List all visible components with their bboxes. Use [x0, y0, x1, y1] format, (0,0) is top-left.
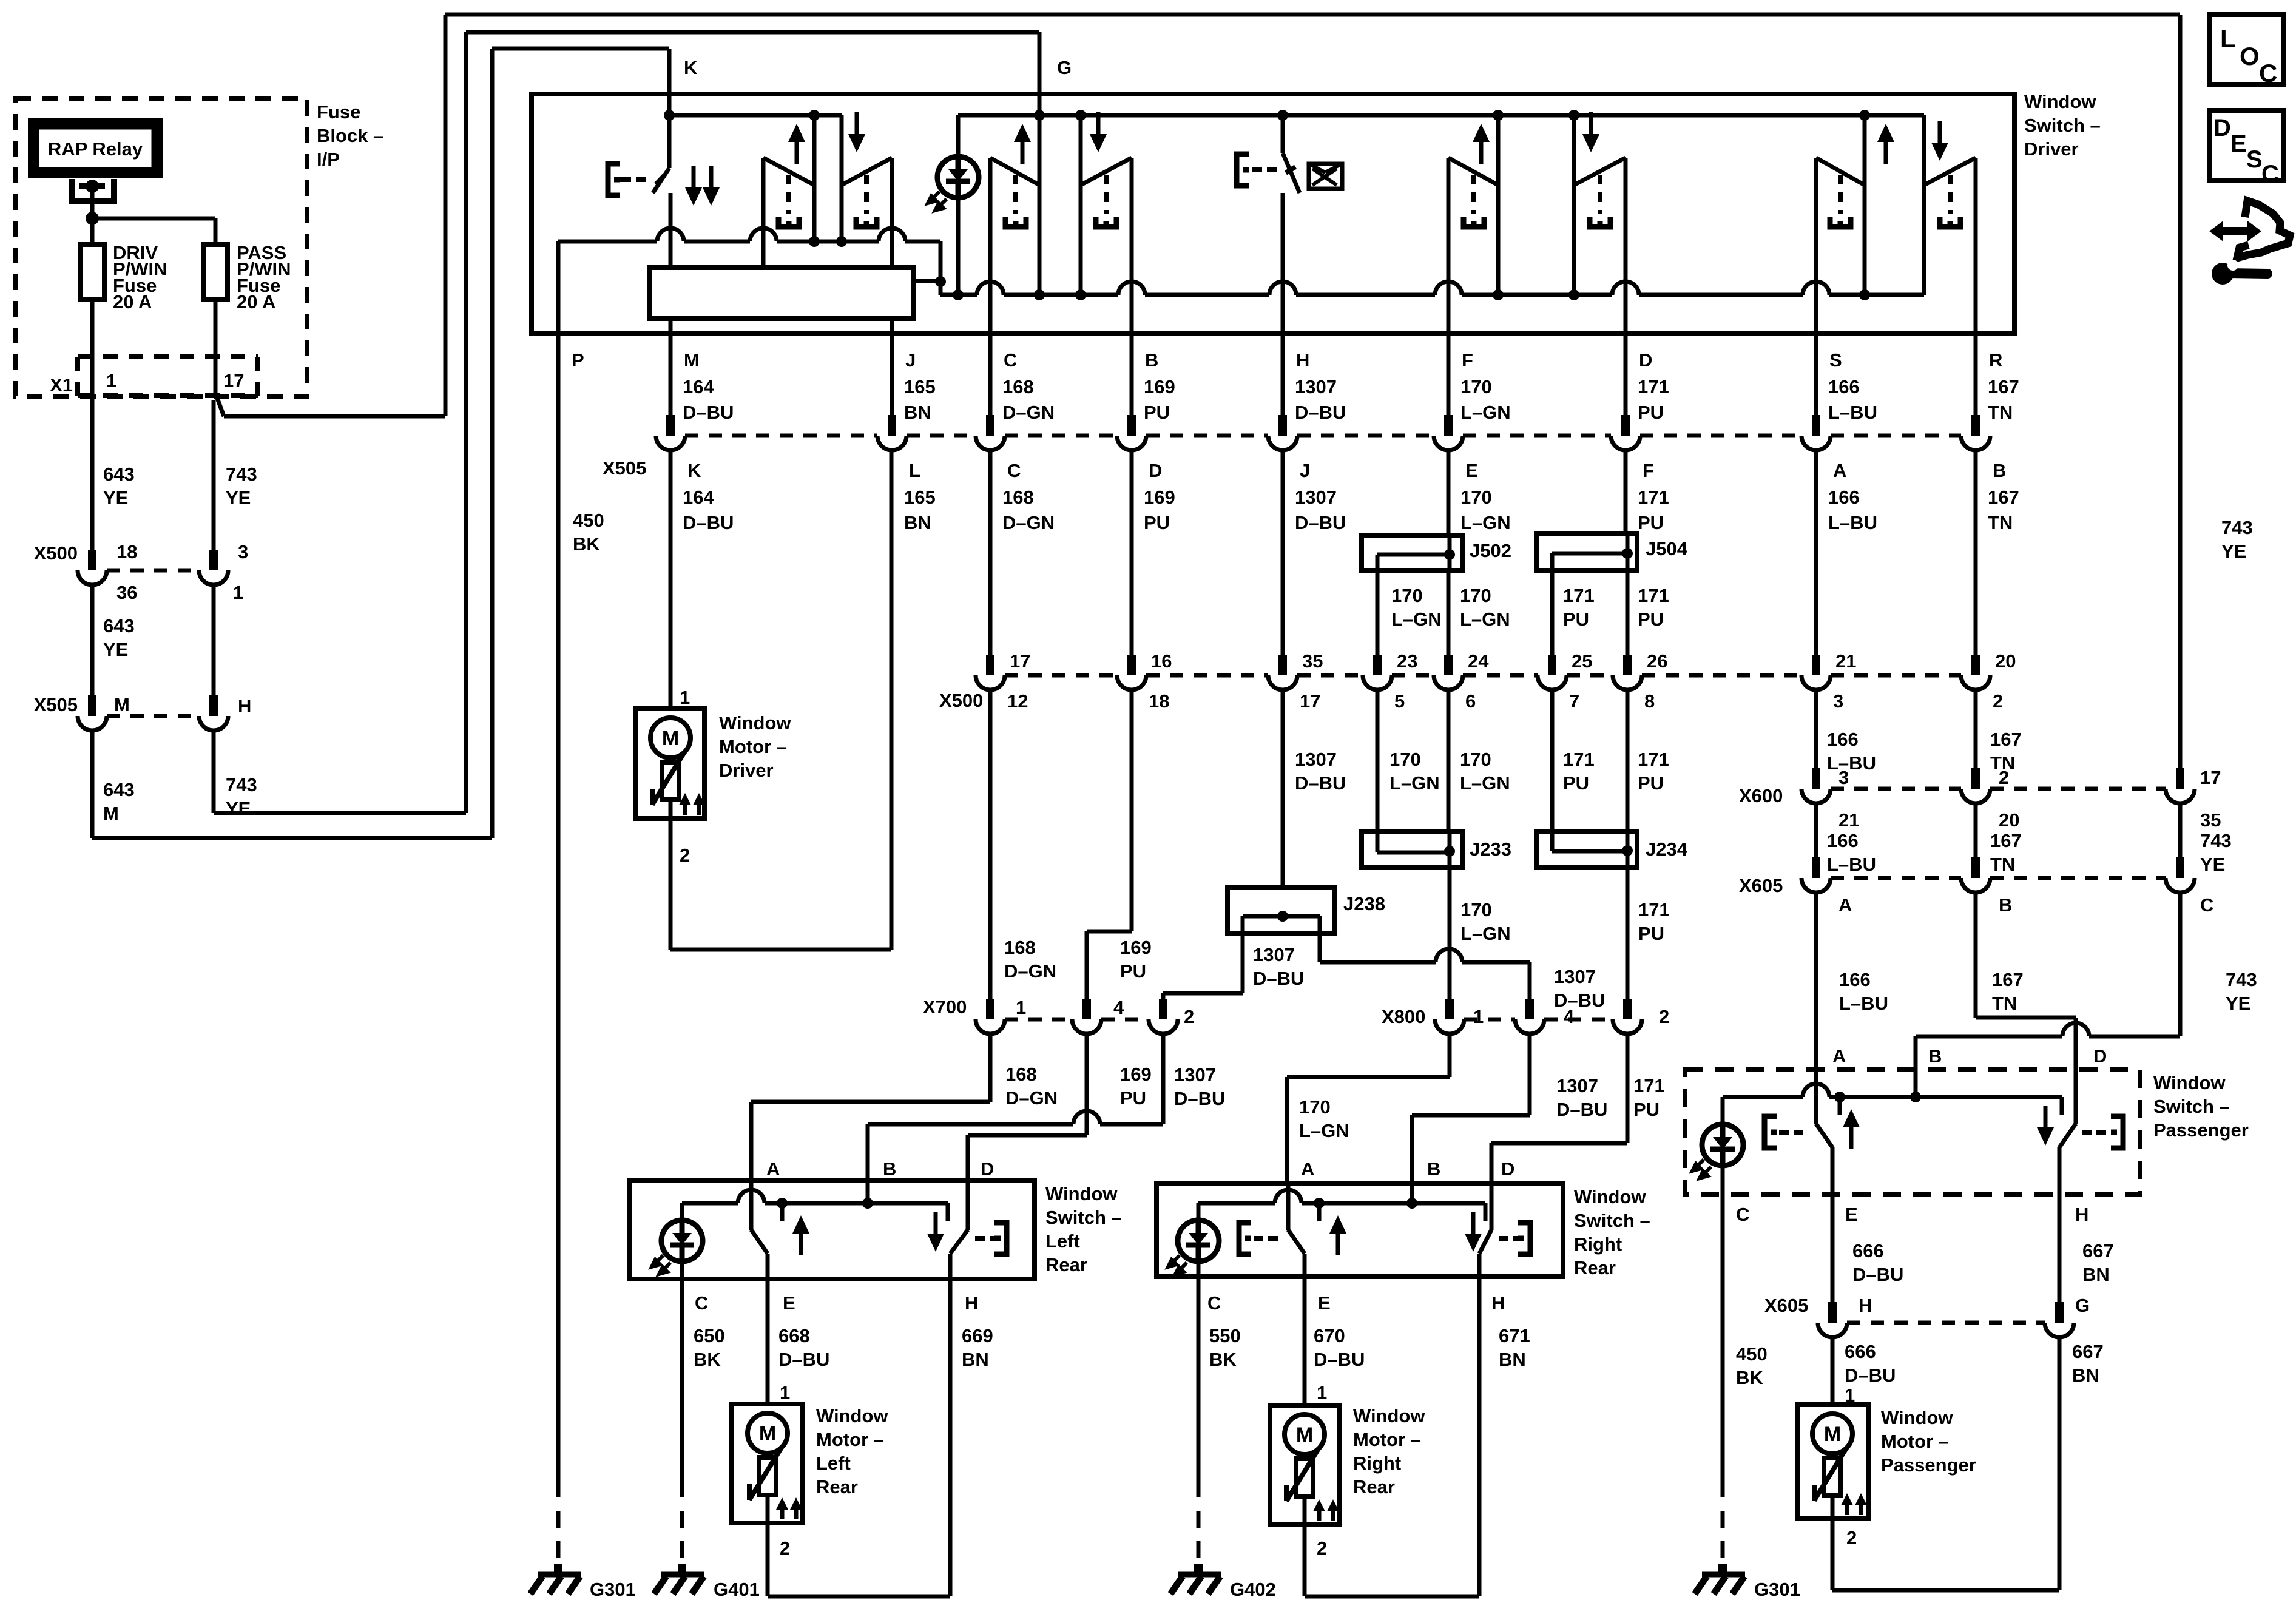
svg-text:D–BU: D–BU	[1556, 1099, 1607, 1120]
svg-text:1307: 1307	[1556, 1075, 1598, 1096]
svg-text:C: C	[1736, 1204, 1749, 1225]
svg-text:C: C	[1004, 349, 1017, 371]
svg-text:D: D	[1149, 460, 1162, 481]
svg-text:Switch –: Switch –	[1574, 1210, 1650, 1231]
ground G301 left	[554, 1564, 562, 1573]
svg-text:25: 25	[1572, 650, 1592, 672]
svg-text:K: K	[687, 460, 701, 481]
switch K lockout	[667, 115, 672, 168]
svg-text:X605: X605	[1764, 1295, 1808, 1316]
wire 171b below J504	[1626, 570, 1630, 655]
node LED dot	[953, 289, 964, 300]
connector X505 at 2387	[1444, 415, 1453, 436]
pass arrow down	[2044, 1106, 2048, 1133]
svg-text:1307: 1307	[1295, 376, 1337, 397]
svg-text:D–BU: D–BU	[1554, 990, 1605, 1011]
svg-text:TN: TN	[1990, 854, 2015, 875]
svg-text:550: 550	[1209, 1325, 1241, 1346]
svg-text:20 A: 20 A	[113, 291, 152, 312]
svg-text:A: A	[1832, 1045, 1846, 1067]
svg-text:BN: BN	[1499, 1349, 1526, 1370]
wire X505 dash	[1005, 434, 1117, 438]
svg-text:6: 6	[1465, 690, 1476, 712]
svg-text:P: P	[572, 349, 584, 371]
svg-text:K: K	[684, 57, 698, 78]
wire 1307 to J238	[1281, 690, 1285, 888]
svg-text:F: F	[1643, 460, 1654, 481]
left rear node B input	[862, 1198, 873, 1209]
arrow down cell1	[855, 112, 859, 140]
connector X505 at 1470	[888, 415, 896, 436]
svg-text:169: 169	[1144, 487, 1175, 508]
left rear arrow down	[934, 1212, 938, 1240]
right rear node up stub	[1314, 1198, 1325, 1209]
svg-text:Left: Left	[1045, 1230, 1080, 1252]
svg-text:169: 169	[1120, 1064, 1152, 1085]
svg-text:J: J	[905, 349, 916, 371]
svg-text:450: 450	[573, 510, 604, 531]
switch quad cell4-up	[1447, 158, 1451, 337]
svg-text:B: B	[1928, 1045, 1942, 1067]
wire 166 to pass box	[1814, 893, 1818, 1070]
wire into X505 2114	[1281, 334, 1285, 415]
svg-text:PU: PU	[1638, 923, 1664, 944]
pass node down stub	[2060, 1097, 2064, 1115]
svg-text:3: 3	[238, 541, 248, 562]
wire PASS fuse down	[214, 300, 218, 393]
svg-text:PU: PU	[1120, 1087, 1146, 1109]
svg-text:164: 164	[683, 487, 714, 508]
left rear arrow up	[799, 1229, 803, 1255]
wire cell5 mid-left	[1863, 115, 1867, 295]
left rear switch down contact	[966, 1181, 970, 1230]
left rear window switch box	[630, 1181, 1035, 1279]
arrow up cell2	[1021, 137, 1025, 164]
svg-text:670: 670	[1314, 1325, 1345, 1346]
svg-text:167: 167	[1988, 487, 2019, 508]
svg-text:PU: PU	[1563, 772, 1589, 794]
svg-text:170: 170	[1391, 585, 1423, 606]
svg-text:D–BU: D–BU	[683, 402, 734, 423]
svg-text:21: 21	[1838, 809, 1859, 831]
switch quad cell5-up	[1814, 158, 1818, 337]
svg-text:36: 36	[116, 582, 137, 603]
wire 170a below J502	[1376, 570, 1380, 655]
connector X500 at 1632	[986, 655, 994, 675]
svg-text:H: H	[2075, 1204, 2088, 1225]
svg-text:C: C	[1207, 1292, 1221, 1314]
wire 743 YE mid	[212, 585, 216, 697]
svg-text:21: 21	[1835, 650, 1856, 672]
svg-text:666: 666	[1845, 1341, 1876, 1362]
svg-text:BK: BK	[1209, 1349, 1237, 1370]
svg-text:668: 668	[778, 1325, 810, 1346]
connector X505 at 2679	[1621, 415, 1630, 436]
svg-text:M: M	[1296, 1423, 1313, 1447]
wire K into box	[667, 49, 672, 115]
svg-text:2: 2	[1999, 767, 2009, 788]
svg-text:167: 167	[1990, 729, 2022, 750]
svg-text:B: B	[883, 1158, 896, 1180]
switch quad cell5-down	[1974, 158, 1978, 337]
wire 170a to J233	[1376, 690, 1380, 832]
svg-text:Motor –: Motor –	[816, 1429, 884, 1450]
svg-text:7: 7	[1569, 690, 1579, 712]
wire X500 dash	[1642, 673, 1801, 678]
svg-text:Rear: Rear	[1045, 1254, 1087, 1275]
wire H below lockout	[1281, 193, 1285, 337]
svg-text:2: 2	[1184, 1006, 1194, 1027]
wire common P segment	[558, 240, 657, 244]
svg-text:171: 171	[1563, 585, 1595, 606]
switch H window lockout	[1281, 115, 1285, 153]
svg-text:1307: 1307	[1295, 749, 1337, 770]
svg-text:YE: YE	[103, 639, 128, 660]
wire cell2 mid-left G	[1038, 115, 1042, 295]
splice J502	[1362, 536, 1462, 570]
svg-text:643: 643	[103, 464, 135, 485]
svg-text:D–BU: D–BU	[1845, 1365, 1896, 1386]
svg-text:Right: Right	[1574, 1234, 1622, 1255]
svg-text:L–GN: L–GN	[1299, 1120, 1349, 1141]
connector X500 at 3256	[1971, 655, 1980, 675]
right rear switch down contact	[1490, 1184, 1494, 1230]
svg-text:169: 169	[1144, 376, 1175, 397]
relay contact symbol	[72, 179, 114, 201]
svg-text:H: H	[1491, 1292, 1505, 1314]
wire into X505 1470	[890, 334, 894, 415]
svg-text:1307: 1307	[1554, 966, 1596, 987]
wire 171 below J234	[1626, 868, 1630, 999]
wire pass motor return 667	[1831, 1519, 1835, 1590]
svg-text:G: G	[1057, 57, 1072, 78]
svg-text:2: 2	[1659, 1006, 1669, 1027]
svg-text:I/P: I/P	[317, 149, 340, 170]
svg-text:E: E	[2230, 130, 2247, 157]
wire X500 dash	[1297, 673, 1363, 678]
svg-text:Window: Window	[1353, 1405, 1425, 1426]
svg-text:D: D	[981, 1158, 994, 1180]
RAP Relay	[30, 121, 160, 176]
ground G402	[1194, 1564, 1203, 1573]
pass linkage up	[1764, 1116, 1777, 1148]
svg-text:L–GN: L–GN	[1391, 609, 1442, 630]
wire into X505 2387	[1447, 334, 1451, 415]
splice J504	[1536, 533, 1637, 570]
wire 166 X600-X605	[1814, 803, 1818, 857]
arrow up cell1	[795, 137, 799, 164]
connector X500 at 2114	[1278, 655, 1287, 675]
svg-text:M: M	[662, 727, 679, 750]
right rear node down stub	[1484, 1203, 1488, 1221]
window lock icon	[1309, 164, 1342, 189]
svg-text:H: H	[238, 695, 251, 717]
switch quad cell4-down	[1624, 158, 1628, 337]
right rear wire switch internal feed	[1198, 1201, 1275, 1206]
arrow wrench icon	[2220, 227, 2250, 235]
right rear arrow up	[1336, 1229, 1340, 1255]
svg-text:Passenger: Passenger	[1881, 1454, 1976, 1476]
right rear switch up contact	[1286, 1184, 1291, 1230]
wire 171a below J504	[1550, 570, 1555, 655]
svg-text:X600: X600	[1739, 785, 1783, 806]
svg-text:YE: YE	[2200, 854, 2225, 875]
wire 167 X600-X605	[1974, 803, 1978, 857]
svg-text:L–GN: L–GN	[1460, 512, 1511, 533]
svg-text:24: 24	[1468, 650, 1489, 672]
connector X505 at 2993	[1812, 415, 1820, 436]
wire 171a to J234	[1550, 690, 1555, 832]
svg-text:Window: Window	[1045, 1183, 1118, 1204]
wire X505 dash	[1463, 434, 1611, 438]
svg-text:743: 743	[2221, 517, 2253, 538]
connector X500 at 2558	[1548, 655, 1556, 675]
svg-text:168: 168	[1002, 487, 1034, 508]
svg-text:167: 167	[1990, 830, 2022, 851]
svg-text:17: 17	[2200, 767, 2221, 788]
right rear window switch box	[1156, 1184, 1563, 1277]
svg-text:A: A	[1838, 894, 1852, 916]
svg-text:171: 171	[1633, 1075, 1665, 1096]
svg-text:D–BU: D–BU	[1295, 402, 1346, 423]
pass node B	[1910, 1092, 1921, 1102]
wire LR motor return 669	[766, 1523, 770, 1596]
pass switch up	[1814, 1070, 1818, 1124]
svg-text:2: 2	[1317, 1538, 1327, 1559]
connector X505 at 2114	[1278, 415, 1287, 436]
wire into X505 3256	[1974, 334, 1978, 415]
wire into X505 2679	[1624, 334, 1628, 415]
svg-text:X505: X505	[603, 457, 646, 479]
wire into X505 1105	[669, 334, 673, 415]
fuse block I/P dashed outline	[15, 98, 307, 396]
wire A rightrear	[1448, 1034, 1452, 1077]
svg-text:H: H	[1296, 349, 1309, 371]
svg-text:Window: Window	[816, 1405, 888, 1426]
wire 171b to J234	[1626, 690, 1630, 832]
svg-text:1: 1	[1473, 1006, 1484, 1027]
svg-text:BN: BN	[2072, 1365, 2099, 1386]
arrow down cell4	[1589, 112, 1593, 140]
svg-text:YE: YE	[2226, 993, 2250, 1014]
wire 643 M loop to K line	[90, 731, 95, 838]
wire P down	[556, 241, 561, 1480]
svg-text:S: S	[2246, 146, 2263, 173]
svg-text:168: 168	[1005, 1064, 1037, 1085]
svg-text:26: 26	[1647, 650, 1667, 672]
svg-text:2: 2	[1846, 1527, 1857, 1548]
svg-text:C: C	[2261, 161, 2279, 187]
svg-text:Window: Window	[2024, 91, 2096, 112]
svg-text:1: 1	[106, 370, 116, 391]
svg-text:170: 170	[1460, 585, 1491, 606]
svg-text:G301: G301	[1754, 1579, 1800, 1600]
svg-text:PU: PU	[1638, 512, 1664, 533]
wire M through bus	[669, 319, 673, 337]
svg-text:D: D	[2213, 115, 2231, 141]
svg-text:E: E	[1465, 460, 1478, 481]
svg-text:A: A	[1833, 460, 1846, 481]
wire X505 dash	[685, 434, 877, 438]
svg-text:TN: TN	[1988, 402, 2013, 423]
wire cell4 mid-left	[1496, 115, 1501, 295]
connector X500 at 2993	[1812, 655, 1820, 675]
wire D rightrear	[1626, 1034, 1630, 1143]
svg-text:G301: G301	[590, 1579, 636, 1600]
wire 667 to X605G	[2058, 1195, 2062, 1302]
svg-text:L–GN: L–GN	[1460, 923, 1511, 944]
svg-text:X500: X500	[939, 690, 983, 711]
svg-text:X700: X700	[923, 996, 967, 1018]
svg-text:PU: PU	[1638, 772, 1664, 794]
svg-text:D–BU: D–BU	[1295, 512, 1346, 533]
svg-text:2: 2	[680, 845, 690, 866]
svg-text:H: H	[1859, 1295, 1872, 1316]
svg-text:J233: J233	[1470, 839, 1511, 860]
svg-text:BN: BN	[904, 402, 931, 423]
svg-text:20 A: 20 A	[237, 291, 275, 312]
svg-text:743: 743	[226, 464, 257, 485]
LOC box	[2209, 15, 2284, 84]
svg-text:YE: YE	[226, 487, 251, 508]
wire G into box	[1038, 32, 1042, 115]
wire B leftrear	[1161, 1034, 1166, 1124]
svg-text:D–BU: D–BU	[1295, 772, 1346, 794]
svg-text:17: 17	[1300, 690, 1320, 712]
wire X505 dash	[907, 434, 976, 438]
svg-text:171: 171	[1638, 749, 1669, 770]
svg-text:J504: J504	[1646, 538, 1688, 559]
svg-text:20: 20	[1995, 650, 2016, 672]
wire X500 dash	[1392, 673, 1434, 678]
wire X505 dash	[1297, 434, 1434, 438]
svg-text:L–BU: L–BU	[1839, 993, 1888, 1014]
svg-text:167: 167	[1992, 969, 2024, 990]
svg-text:B: B	[1145, 349, 1158, 371]
svg-text:1: 1	[1317, 1382, 1327, 1403]
wire X505 dash	[1146, 434, 1268, 438]
svg-text:2: 2	[780, 1538, 790, 1559]
wire cell4 mid-right	[1572, 115, 1576, 295]
wire 1307 col	[1281, 450, 1285, 655]
wire 643 YE mid	[90, 585, 95, 697]
svg-text:BN: BN	[2082, 1264, 2110, 1285]
pass node up stub	[1834, 1092, 1845, 1102]
svg-text:Window: Window	[1881, 1407, 1953, 1428]
wire 743 YE loop to G line	[212, 731, 216, 813]
svg-text:450: 450	[1736, 1343, 1768, 1365]
svg-text:PU: PU	[1563, 609, 1589, 630]
svg-text:166: 166	[1827, 729, 1859, 750]
wire X500 dash	[1146, 673, 1268, 678]
wire into X505 2993	[1814, 334, 1818, 415]
svg-text:170: 170	[1460, 487, 1492, 508]
svg-text:169: 169	[1120, 937, 1152, 958]
svg-text:M: M	[103, 803, 119, 824]
svg-text:Window: Window	[719, 712, 791, 734]
svg-text:667: 667	[2072, 1341, 2104, 1362]
svg-text:M: M	[114, 694, 130, 715]
svg-text:D–GN: D–GN	[1002, 402, 1055, 423]
svg-text:YE: YE	[226, 798, 251, 819]
connector X500 at 2270	[1373, 655, 1382, 675]
svg-text:2: 2	[1993, 690, 2003, 712]
svg-text:PU: PU	[1638, 402, 1664, 423]
svg-text:J238: J238	[1343, 893, 1385, 914]
svg-text:171: 171	[1638, 376, 1669, 397]
window motor left rear	[732, 1404, 803, 1523]
svg-text:16: 16	[1151, 650, 1172, 672]
wire 170b below J502	[1447, 570, 1451, 655]
svg-text:D–BU: D–BU	[683, 512, 734, 533]
svg-text:743: 743	[2226, 969, 2257, 990]
svg-text:165: 165	[904, 376, 936, 397]
DESC box	[2209, 110, 2284, 180]
wire 743 X600-X605	[2178, 803, 2183, 857]
svg-text:Driver: Driver	[719, 760, 774, 781]
svg-text:170: 170	[1460, 376, 1492, 397]
wire X500 dash	[1463, 673, 1538, 678]
wire 170b to J233	[1447, 690, 1451, 832]
svg-text:M: M	[1824, 1423, 1841, 1446]
wire relay to DRIV fuse	[90, 218, 95, 245]
svg-text:171: 171	[1638, 487, 1669, 508]
svg-text:666: 666	[1852, 1240, 1884, 1261]
svg-text:YE: YE	[103, 487, 128, 508]
switch quad cell2-down	[1130, 158, 1134, 337]
svg-text:J502: J502	[1470, 540, 1511, 561]
left rear wire switch internal feed	[682, 1201, 738, 1206]
right rear node B input	[1406, 1198, 1417, 1209]
svg-text:BK: BK	[573, 533, 600, 555]
wire into X505 1632	[988, 334, 993, 415]
svg-text:C: C	[2200, 894, 2213, 916]
svg-text:168: 168	[1004, 937, 1036, 958]
wire X505 dash	[1831, 434, 1961, 438]
wire X505 dash	[1640, 434, 1801, 438]
svg-text:Driver: Driver	[2024, 138, 2079, 160]
svg-text:D–BU: D–BU	[1852, 1264, 1903, 1285]
svg-text:D: D	[1501, 1158, 1514, 1180]
svg-text:PU: PU	[1120, 960, 1146, 982]
wire RR motor return 671	[1303, 1525, 1307, 1596]
node K junction	[664, 110, 675, 121]
svg-text:3: 3	[1833, 690, 1843, 712]
svg-text:E: E	[783, 1292, 795, 1314]
wire cell1 right to bus	[890, 241, 894, 268]
connector X500 at 2387	[1444, 655, 1453, 675]
svg-text:TN: TN	[1988, 512, 2013, 533]
svg-text:35: 35	[2200, 809, 2221, 831]
splice J234	[1536, 832, 1637, 868]
svg-text:20: 20	[1999, 809, 2019, 831]
svg-text:B: B	[1993, 460, 2006, 481]
svg-text:643: 643	[103, 615, 135, 636]
switch quad cell2-up	[988, 158, 993, 337]
svg-text:B: B	[1427, 1158, 1440, 1180]
connector X500 at 1865	[1127, 655, 1136, 675]
wire 169 jog to X700-4	[1130, 690, 1134, 931]
svg-text:1: 1	[680, 687, 690, 708]
svg-text:23: 23	[1397, 650, 1417, 672]
svg-text:18: 18	[116, 541, 137, 562]
wire 167 jog to D	[1974, 893, 1978, 1018]
wire motor return 165	[669, 819, 673, 950]
svg-text:D–BU: D–BU	[1314, 1349, 1365, 1370]
svg-text:Left: Left	[816, 1453, 851, 1474]
bus bar rect	[649, 268, 914, 319]
svg-text:RAP Relay: RAP Relay	[48, 138, 143, 160]
